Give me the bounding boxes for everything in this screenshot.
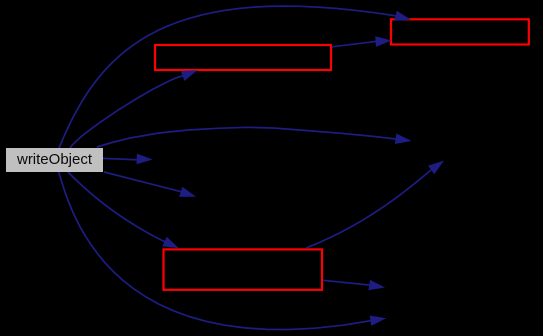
- edge writeObject to right hidden node (short horizontal): [103, 154, 153, 165]
- edge bottom box to bottom-right hidden node: [323, 280, 385, 290]
- node writeObject (grey fill): [6, 148, 103, 172]
- edge writeObject to bottom box: [68, 172, 179, 248]
- node box (middle, red border): [155, 45, 331, 70]
- edge bottom box to mid-right hidden node: [306, 161, 444, 249]
- node box (bottom, red border): [164, 249, 323, 289]
- edge writeObject to top-right box: [59, 6, 411, 148]
- edge writeObject to middle box: [70, 70, 198, 148]
- node box (top-right, red border): [391, 19, 529, 44]
- edge writeObject to lower-right hidden node (short diagonal): [104, 172, 196, 197]
- edge writeObject to mid-right hidden node: [97, 127, 412, 147]
- edge writeObject to bottom-right hidden node (long bottom curve): [59, 172, 387, 330]
- svg-text:writeObject: writeObject: [16, 151, 93, 168]
- edge middle box to top-right box: [332, 36, 392, 47]
